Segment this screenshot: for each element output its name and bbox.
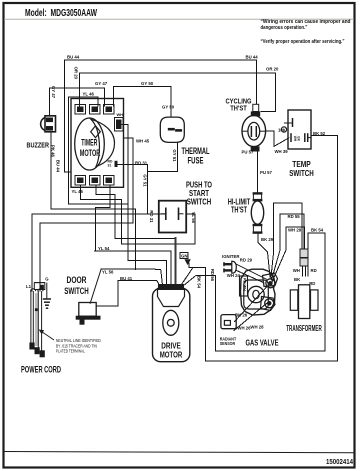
svg-text:GN: GN [181,254,187,259]
svg-text:YL 46: YL 46 [72,189,84,194]
svg-text:MOTOR: MOTOR [80,147,101,158]
svg-text:OR 20: OR 20 [74,67,79,80]
svg-text:RD: RD [309,281,315,286]
wire sensor diag 1 [235,286,268,322]
svg-text:31: 31 [108,163,112,167]
svg-text:PU 57: PU 57 [260,170,273,175]
svg-text:“Verify proper operation after: “Verify proper operation after servicing… [261,39,345,45]
svg-text:BK 54: BK 54 [197,276,202,289]
wire timer pin2 bus [96,185,176,238]
svg-text:WH: WH [243,285,247,292]
timer WH terminal [115,118,124,132]
svg-text:TRANSFORMER: TRANSFORMER [286,324,322,333]
svg-text:RD 55: RD 55 [288,214,301,219]
title separator line [4,18,354,20]
wire GN net diag to motor pin [181,267,193,285]
wire BK54 loop around gas valve [216,233,326,351]
svg-text:BK 52: BK 52 [313,131,326,136]
svg-text:WH 45: WH 45 [136,139,150,144]
wire transformer lead RD [305,266,307,276]
wire timer pin3 bus [95,185,110,251]
wire PU57 [256,152,258,192]
svg-text:10K: 10K [278,128,287,133]
svg-text:POWER CORD: POWER CORD [21,364,61,374]
svg-text:YL 56: YL 56 [102,269,114,274]
wire BK54 transformer [307,233,309,276]
svg-text:SWITCH: SWITCH [289,168,314,178]
svg-text:RD: RD [311,268,317,273]
svg-text:SENSOR: SENSOR [220,341,236,346]
timer bottom contacts [75,176,114,186]
wire temp 10K contact [285,122,293,124]
wire RD55 [271,203,302,279]
svg-text:WH 28: WH 28 [250,325,264,330]
svg-text:THERMAL: THERMAL [182,146,210,156]
wire PTS right YL56 loop [186,214,195,244]
wire GY50 [114,87,171,118]
svg-text:WH: WH [117,112,124,117]
svg-text:PLATED TERMINAL: PLATED TERMINAL [56,349,86,354]
wire BK54 loop [184,275,216,285]
buzzer [41,116,56,132]
wire N bus [40,223,133,291]
svg-text:GY 47: GY 47 [95,81,108,86]
wire YL54 to motor [95,251,171,285]
svg-text:BK: BK [297,136,301,141]
svg-text:GY 47: GY 47 [51,86,56,99]
wire BK29 hi-limit down [258,234,270,277]
wire motor right BK52 [189,263,206,361]
svg-text:dangerous operation.”: dangerous operation.” [261,25,308,31]
radiant sensor [221,315,236,329]
wire RD31 from timer [118,164,148,213]
svg-text:BU 41: BU 41 [120,276,133,281]
ground symbol [46,283,48,299]
svg-text:BU 44: BU 44 [246,55,259,60]
wire thermal fuse GY51 [148,142,178,171]
svg-text:DOOR: DOOR [67,275,87,285]
svg-text:WH 26: WH 26 [237,326,251,331]
wire transformer leads [302,266,304,276]
svg-text:GAS VALVE: GAS VALVE [246,338,279,348]
timer RD31 contact bar [115,161,118,167]
svg-text:WH 29: WH 29 [288,228,302,233]
wire BK52 [206,136,338,362]
svg-text:MOTOR: MOTOR [160,350,183,360]
svg-text:PK 46: PK 46 [51,145,56,158]
svg-text:GY 51: GY 51 [172,149,177,162]
wire GY47 [49,88,104,116]
svg-text:OR 20: OR 20 [266,67,279,72]
svg-text:BK 29: BK 29 [261,237,274,242]
timer cam blob [91,119,115,166]
wire igniter RD29 [236,264,266,279]
svg-text:BU 44: BU 44 [56,160,61,173]
wire sensor diag 2 [234,304,267,331]
power cord [30,283,54,357]
svg-text:RD 31: RD 31 [135,161,148,166]
svg-text:FUSE: FUSE [188,156,204,166]
timer diamond [91,126,101,138]
wire BU44 top [65,60,257,172]
svg-text:TH'ST: TH'ST [231,206,247,215]
svg-text:GY 50: GY 50 [141,81,154,86]
wire timer corner bus [68,97,166,285]
svg-text:GY 51: GY 51 [143,174,148,187]
wire cycling to WH39 [266,131,289,146]
svg-text:IGNITER: IGNITER [222,254,240,259]
svg-text:PU 57: PU 57 [242,150,255,155]
wire WH45 [121,124,128,204]
svg-text:BU 44: BU 44 [67,55,80,60]
wire YL56 door to motor [101,269,162,285]
svg-text:15002414: 15002414 [326,457,354,466]
drive motor [153,285,190,362]
bottom separator line [4,452,354,453]
svg-text:BUZZER: BUZZER [27,141,50,150]
GN arrow [180,253,191,266]
svg-text:WH 24: WH 24 [227,273,241,278]
svg-text:RD 56: RD 56 [210,269,215,282]
wire timer edge to N bus [124,138,133,223]
svg-text:GY 50: GY 50 [162,105,175,110]
wire YL46 [68,97,98,106]
wire PTS drop to motor (thick) [174,238,176,285]
wire PK46 buzzer bus [51,132,136,269]
gas valve [240,269,278,315]
svg-text:RD: RD [243,278,247,284]
svg-text:SWITCH: SWITCH [64,286,89,296]
svg-text:SWITCH: SWITCH [187,197,212,207]
svg-text:TIMER: TIMER [81,137,97,148]
wire WH29 [272,227,305,282]
svg-text:YL 56: YL 56 [191,212,196,224]
timer motor ellipse [75,118,105,170]
neutral arrow [42,332,55,341]
thermal fuse [160,117,184,142]
svg-text:YL 46: YL 46 [83,92,95,97]
timer top contacts [75,105,114,115]
temp switch [281,110,311,149]
svg-text:L1: L1 [26,284,32,289]
wire L1 bus [32,214,166,291]
svg-text:TH'ST: TH'ST [230,104,247,113]
svg-text:RD 29: RD 29 [240,258,253,263]
svg-text:WH: WH [293,268,300,273]
svg-text:Model: MDG3050AAW: Model: MDG3050AAW [25,8,98,19]
svg-text:YL 54: YL 54 [98,246,110,251]
svg-text:BK: BK [294,277,301,282]
wire BU41 door to motor [118,280,160,285]
wire timer pin1 bus [81,185,195,244]
wire RD55 inner [272,214,304,280]
wire door switch drop [96,280,118,305]
svg-text:RD 31: RD 31 [149,210,154,223]
svg-text:BK 26: BK 26 [235,313,248,318]
svg-text:WH 39: WH 39 [275,149,289,154]
transformer [290,249,318,319]
wire OR20 [80,73,276,112]
wire igniter WH24 [236,270,264,282]
svg-text:BK 54: BK 54 [311,228,324,233]
timer box [71,99,124,188]
